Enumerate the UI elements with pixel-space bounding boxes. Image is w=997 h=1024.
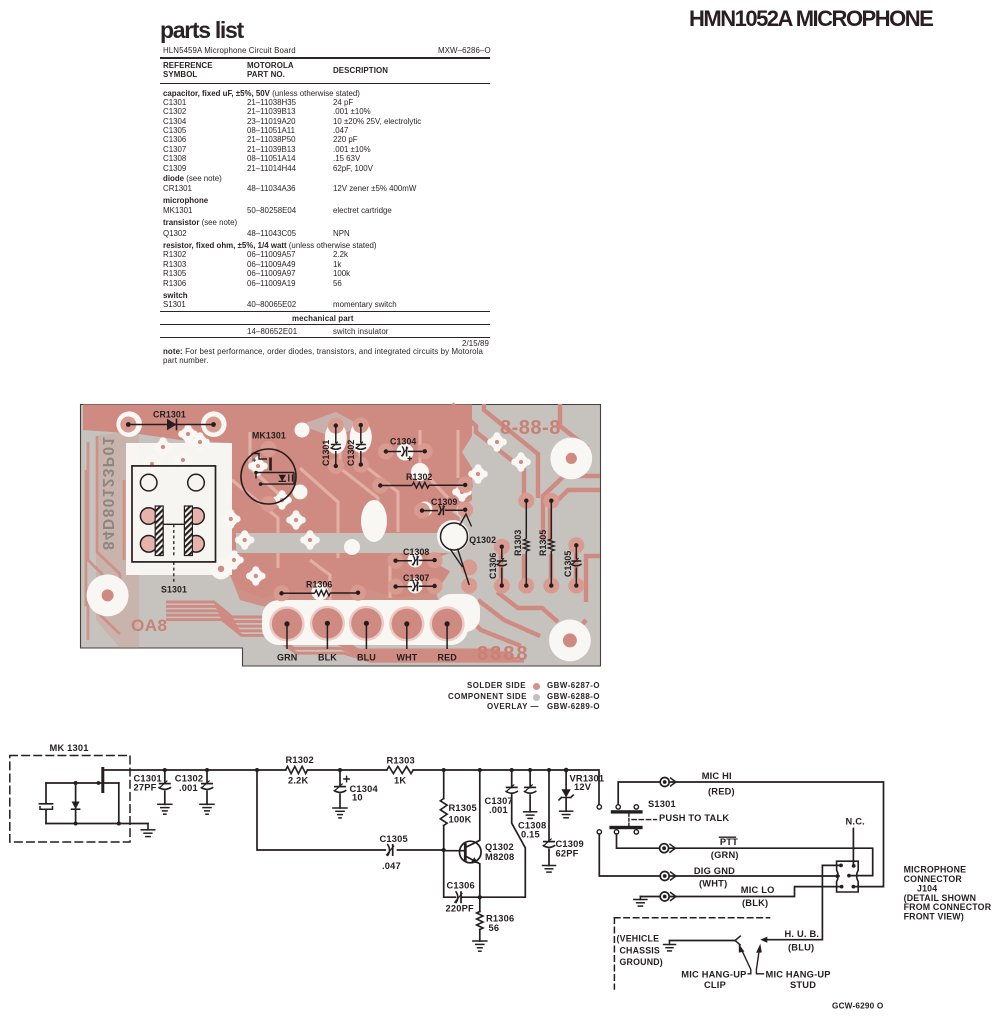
svg-text:12V: 12V [574,782,592,792]
svg-text:GCW-6290 O: GCW-6290 O [832,1002,884,1011]
document title [689,6,932,32]
label R1302 2.2K [286,755,314,786]
ground (vehicle chassis) [663,941,677,951]
ground (C1302) [199,804,215,814]
svg-text:R1303: R1303 [387,756,415,766]
transistor Q1302 [444,768,482,897]
resistor R1305 (overlay) [549,499,555,588]
OAB mark (mirrored) [131,616,167,635]
svg-text:.001: .001 [489,805,508,815]
node: MK1301 output junction [117,822,121,826]
svg-text:Q1302: Q1302 [469,535,496,545]
label N.C. [846,817,865,827]
label MIC HI (RED) [702,771,735,796]
svg-text:8888: 8888 [477,643,530,665]
capacitor C1308 [524,768,537,812]
label MIC HANG-UP STUD [766,969,831,990]
svg-text:MICROPHONE: MICROPHONE [904,865,967,875]
clover pads [142,424,531,586]
label C1306 220PF [446,881,475,914]
svg-text:CHASSIS: CHASSIS [620,946,661,956]
switch S1301 contacts [597,805,638,834]
wire: H.U.B. [760,865,839,942]
switch S1301 actuator dashes [629,814,657,826]
svg-text:0.15: 0.15 [521,830,540,840]
label R1306 56 [486,914,514,934]
capacitor C1307 (overlay) [393,581,436,591]
svg-text:STUD: STUD [790,980,816,990]
parts list heading [160,17,243,44]
svg-text:.001: .001 [179,783,198,793]
connector J104 pins [835,864,855,889]
hang-up clip contact [735,936,740,945]
terminal PTT [660,844,676,853]
capacitor C1304 electrolytic [334,768,347,808]
switch S1301 lower bar [609,826,642,829]
label R1303 1K [387,756,415,786]
solder trace bundle bottom left [166,602,524,661]
solder traces right block [452,404,600,646]
svg-text:8-88-8: 8-88-8 [500,417,561,439]
label C1309 62PF [556,839,584,858]
PCB board outline [81,405,601,667]
svg-text:.047: .047 [382,861,401,871]
wire: N.C. stub [852,829,854,866]
svg-text:Q1302: Q1302 [485,842,514,852]
label MK1301 (overlay) [252,431,286,441]
switch S1301 (overlay) [132,466,216,562]
wire: MK1301 internal left/bottom [46,783,148,824]
svg-text:MIC HANG-UP: MIC HANG-UP [681,969,746,979]
svg-text:C1302: C1302 [346,440,356,466]
wire: MIC HI [618,782,883,887]
capacitor C1302 (overlay) [356,423,367,467]
switch clearance area [126,443,232,575]
capacitor C1308 (overlay) [393,555,436,565]
svg-text:MK 1301: MK 1301 [50,743,89,753]
label C1302 (overlay) [346,440,356,466]
table subtitle row [163,46,296,55]
svg-text:10: 10 [352,793,363,803]
capacitor C1301 [159,768,172,804]
wire: feedback branch (lower) [255,768,444,850]
label VR1301 12V [570,774,605,793]
transistor Q1302 (overlay) [441,514,472,585]
svg-text:BLK: BLK [318,653,337,663]
electret element bar [101,769,104,792]
svg-text:(BLU): (BLU) [788,943,814,953]
hang-up stud pointer [756,944,763,974]
label C1307 (overlay) [403,573,429,583]
label R1303 (overlay) [513,530,523,556]
vehicle chassis ground dashed boundary [614,918,769,989]
label MICROPHONE CONNECTOR J104 [904,865,992,922]
label R1306 (overlay) [306,580,332,590]
board number 84D80123P01 (mirrored) [99,435,116,550]
svg-text:S1301: S1301 [648,799,676,809]
microphone MK1301 dashed enclosure [10,756,130,843]
svg-text:R1306: R1306 [306,580,332,590]
diode CR1301 (overlay) [126,419,216,431]
label S1301 [648,799,676,809]
resistor R1306 [477,897,483,941]
wire: emitter node to C1307 [480,794,526,897]
PCB artwork placeholder [0,390,997,720]
label MK 1301 [50,743,89,753]
capacitor C1305 [386,844,394,856]
plus sign C1304 [344,776,349,781]
label C1308 0.15 [518,821,546,840]
hang-up clip pointer [739,944,751,974]
ground (VR1301) [559,811,574,818]
component-side regions [236,412,474,622]
capacitor C1307 [505,768,518,793]
wire: chassis to hang-up clip [670,940,735,942]
svg-text:CLIP: CLIP [704,980,726,990]
svg-text:N.C.: N.C. [846,817,865,827]
svg-text:8AO: 8AO [131,616,167,635]
ground (C1304) [332,808,348,818]
label C1306 (overlay) [488,553,498,579]
svg-text:MIC LO: MIC LO [741,885,775,895]
label MIC LO (BLK) [741,885,775,908]
resistor R1306 (overlay) [279,590,360,596]
mounting pads [87,411,593,661]
label DIG GND (WHT) [694,866,735,889]
wire: MK1301 internal top [46,781,119,785]
label Q1302 M8208 [485,842,514,862]
svg-text:C1309: C1309 [431,497,457,507]
svg-text:PUSH TO TALK: PUSH TO TALK [659,813,729,823]
svg-text:R1302: R1302 [406,472,432,482]
label S1301 (overlay) [161,562,187,595]
svg-text:MK1301: MK1301 [252,431,286,441]
bottom table rules [160,311,490,312]
label C1302 .001 [175,774,203,793]
label (VEHICLE CHASSIS GROUND) [617,934,663,968]
svg-text:MIC HANG-UP: MIC HANG-UP [766,969,831,979]
resistor R1303 (overlay) [524,499,530,588]
svg-text:R1302: R1302 [286,755,314,765]
wire: MIC LO [640,887,840,897]
svg-text:GROUND): GROUND) [620,957,663,967]
resistor R1305 [440,768,447,852]
svg-text:+: + [252,456,257,465]
svg-text:FRONT VIEW): FRONT VIEW) [904,912,964,922]
table header [163,61,213,79]
terminal MIC LO [660,892,676,901]
svg-text:C1304: C1304 [390,437,416,447]
zener diode VR1301 [559,768,573,812]
svg-text:C1307: C1307 [403,573,429,583]
drawing number GCW-6290 O [832,1002,884,1011]
terminal DIG GND [660,872,676,881]
label MIC HANG-UP CLIP [681,969,746,990]
resistor R1302 (overlay) [378,482,467,488]
svg-text:CR1301: CR1301 [153,410,186,420]
svg-text:RED: RED [438,653,458,663]
ground (MIC LO) [633,897,648,907]
label CR1301 (overlay) [153,410,186,420]
7-seg mark bottom right [477,643,530,665]
svg-text:27PF: 27PF [134,783,157,793]
svg-text:R1306: R1306 [486,914,514,924]
solder traces left edge [86,436,124,640]
capacitor C1305 (overlay) [571,543,582,588]
label R1305 (overlay) [538,530,548,556]
wire: PTT [617,834,873,876]
capacitor C1309 (overlay) [420,505,468,515]
terminal MIC HI [660,778,676,787]
svg-text:C1305: C1305 [563,551,573,577]
label C1307 .001 [485,796,513,815]
capacitor C1306 (overlay) [497,545,508,588]
svg-text:C1305: C1305 [380,834,408,844]
svg-text:C1306: C1306 [488,553,498,579]
wire pads GRN BLK BLU WHT RED [269,606,464,642]
label PUSH TO TALK [659,813,729,823]
capacitor element in MK1301 [40,804,53,809]
solder-side copper pour [83,405,472,649]
label PTT (GRN) [711,837,739,860]
label R1305 100K [449,803,477,825]
white clearance blobs [293,421,472,601]
label C1304 (overlay) [390,437,416,447]
capacitor C1309 [543,768,556,866]
7-seg mark top right [500,417,561,439]
switch center link (overlay) [163,524,184,556]
label C1301 27PF [134,774,162,793]
label C1309 (overlay) [431,497,457,507]
switch pads (overlay) [140,474,204,552]
label R1302 (overlay) [406,472,432,482]
svg-text:(BLK): (BLK) [742,898,768,908]
svg-text:DIG GND: DIG GND [694,866,735,876]
ground (R1306) [472,941,488,951]
svg-text:100K: 100K [449,815,472,825]
svg-text:(RED): (RED) [708,786,735,796]
ground (C1301) [157,804,173,814]
microphone MK1301 (overlay) [241,449,296,504]
svg-text:R1305: R1305 [538,530,548,556]
svg-text:PTT: PTT [720,837,738,847]
ground (C1309) [542,866,557,873]
switch S1301 upper bar [611,810,643,813]
svg-text:1K: 1K [394,776,406,786]
label C1305 (overlay) [563,551,573,577]
light solder traces [232,426,458,600]
capacitor C1304 (overlay) [384,446,427,460]
label C1308 (overlay) [403,547,429,557]
svg-text:GRN: GRN [277,653,297,663]
label C1301 (overlay) [321,440,331,466]
label C1305 .047 [380,834,408,871]
svg-text:BLU: BLU [357,653,376,663]
wire: audio rail (top) [104,770,599,804]
diode element in MK1301 [72,781,80,826]
capacitor C1302 [201,768,214,804]
svg-text:C1308: C1308 [403,547,429,557]
legend [467,681,526,690]
svg-text:56: 56 [489,923,500,933]
label Q1302 (overlay) [469,535,496,545]
svg-text:220PF: 220PF [446,904,475,914]
connector J104 body [837,861,859,892]
wire pad leads and labels (overlay) [277,621,457,663]
svg-text:84D80123P01: 84D80123P01 [99,435,116,550]
wire: DIG GND [599,834,839,876]
svg-text:C1306: C1306 [447,881,475,891]
svg-text:2.2K: 2.2K [288,776,309,786]
capacitor C1306 [444,850,482,903]
label H.U.B. (BLU) [785,929,820,952]
svg-text:C1301: C1301 [321,440,331,466]
resistor R1303 [387,766,413,773]
svg-text:R1303: R1303 [513,530,523,556]
svg-text:S1301: S1301 [161,585,187,595]
svg-text:WHT: WHT [397,653,418,663]
svg-text:M8208: M8208 [485,852,514,862]
ground (C1308) [523,812,538,819]
svg-text:J104: J104 [917,883,937,893]
svg-text:(VEHICLE: (VEHICLE [617,934,660,944]
solder pads [120,417,584,602]
svg-text:(WHT): (WHT) [699,878,727,888]
resistor R1302 [286,766,308,773]
capacitor C1301 (overlay) [331,423,342,468]
svg-text:MIC HI: MIC HI [702,771,732,781]
svg-text:H. U. B.: H. U. B. [785,929,820,939]
label C1304 10 [350,784,379,803]
bottom pads white band [262,594,480,645]
svg-text:62PF: 62PF [556,848,579,858]
ground (MK1301 return) [141,824,156,837]
svg-text:R1305: R1305 [449,803,477,813]
svg-text:(GRN): (GRN) [711,850,739,860]
